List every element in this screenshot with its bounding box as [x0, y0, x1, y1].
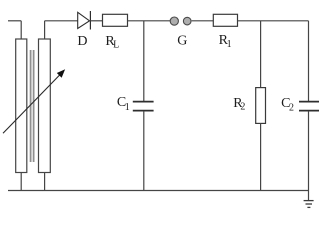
svg-text:L: L [113, 40, 119, 51]
wire bottom rail [8, 190, 309, 192]
svg-text:G: G [177, 34, 187, 49]
label D [77, 34, 87, 49]
wire C1 down to bottom rail [143, 111, 145, 191]
svg-text:1: 1 [227, 39, 232, 50]
svg-text:2: 2 [240, 102, 245, 113]
label G [177, 34, 187, 49]
terminal G circle 1 [170, 17, 178, 25]
wire R2 down to bottom rail [260, 123, 262, 190]
svg-text:2: 2 [289, 102, 294, 113]
label C2 [281, 96, 294, 113]
wire riser from right plate up to top rail [44, 21, 46, 39]
label R2 [233, 96, 245, 113]
wire C1 branch from top rail [143, 21, 145, 101]
resistor RL (box) [103, 14, 128, 26]
wire right drop to C2 [308, 21, 310, 101]
wire R2 branch from top rail [260, 21, 262, 88]
resistor R2 (box) [256, 88, 266, 124]
capacitor C2 plates [299, 102, 319, 111]
label C1 [117, 95, 130, 113]
resistor R1 (box) [213, 14, 237, 26]
label RL [105, 34, 119, 51]
wire R1 to top-right corner [238, 20, 309, 22]
svg-text:D: D [77, 34, 87, 49]
capacitor C1 plates [133, 102, 154, 111]
diode D [78, 11, 91, 30]
core line 2 (grey) [33, 50, 35, 162]
label R1 [219, 33, 232, 50]
wire RL to terminal G1 [128, 20, 171, 22]
svg-text:1: 1 [125, 102, 130, 113]
variability arrow across coupler [3, 70, 64, 133]
ground symbol [304, 201, 314, 208]
variable coupler left plate (rect) [16, 39, 27, 173]
terminal G circle 2 [183, 17, 191, 25]
wire terminal G to R1 [192, 20, 214, 22]
wire right plate bottom drop [44, 173, 46, 191]
wire top-left input stub [8, 20, 21, 22]
variable coupler right plate (rect) [39, 39, 51, 173]
wire left plate bottom drop [20, 173, 22, 191]
wire diode to RL [90, 20, 102, 22]
wire top rail: coupler to diode [45, 20, 78, 22]
core line 1 (grey) [30, 50, 32, 162]
wire C2 down to bottom rail and ground [308, 111, 310, 200]
wire riser from stub down to left plate L1 [20, 21, 22, 39]
